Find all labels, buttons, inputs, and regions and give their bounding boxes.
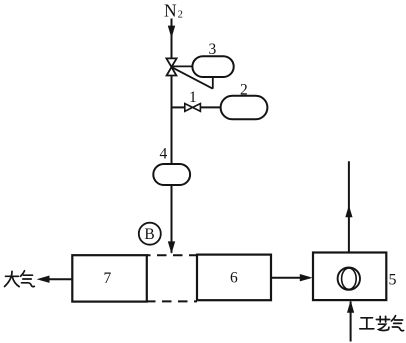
wire branch to valve 1 bbox=[171, 106, 185, 108]
flow arrow up on discharge riser bbox=[345, 205, 352, 217]
wire valve 1 to capsule 2 bbox=[200, 106, 220, 108]
flow arrow down on N2 line bbox=[168, 26, 175, 39]
wire N2 line middle segment bbox=[171, 76, 173, 165]
node B circle bbox=[139, 223, 161, 245]
label 大气 (atmosphere) bbox=[5, 271, 35, 287]
char 气 bbox=[21, 271, 25, 276]
blower box 5 bbox=[313, 253, 386, 301]
svg-text:N: N bbox=[164, 0, 177, 20]
label 工艺气 (process gas) bbox=[360, 316, 404, 331]
wire N2 feed line upper segment bbox=[171, 19, 173, 59]
svg-text:7: 7 bbox=[104, 270, 112, 287]
dashed duct top between 7 and 6 bbox=[147, 254, 197, 256]
flow arrow down into duct bbox=[168, 241, 175, 253]
flow arrow up into blower bottom bbox=[347, 300, 354, 313]
char 气 bbox=[391, 316, 395, 321]
char 大 bbox=[6, 275, 19, 277]
char 工 bbox=[361, 317, 373, 319]
instrument capsule 3 bbox=[192, 56, 233, 77]
wire outlet to atmosphere bbox=[48, 278, 72, 280]
flow arrow to atmosphere (left) bbox=[37, 276, 50, 283]
vessel box 7 bbox=[72, 255, 147, 301]
svg-text:2: 2 bbox=[178, 9, 183, 20]
wire N2 line lower segment bbox=[171, 185, 173, 253]
svg-text:2: 2 bbox=[240, 81, 248, 98]
flow arrow into blower 5 bbox=[300, 274, 313, 281]
svg-text:4: 4 bbox=[160, 146, 168, 163]
instrument capsule 4 (in-line) bbox=[153, 164, 190, 185]
label N2 (nitrogen inlet) bbox=[164, 0, 183, 20]
wire process gas inlet riser bbox=[350, 302, 352, 342]
svg-text:5: 5 bbox=[389, 271, 397, 288]
control valve (two triangles, vertical) bbox=[166, 58, 176, 75]
wire blower discharge riser bbox=[348, 161, 350, 252]
instrument capsule 2 bbox=[221, 96, 268, 120]
signal line riser under instrument 3 bbox=[212, 77, 214, 89]
vessel box 6 bbox=[197, 255, 271, 301]
svg-text:3: 3 bbox=[209, 41, 217, 58]
dashed duct bottom between 7 and 6 bbox=[147, 300, 197, 302]
signal line valve to instrument 3 (horizontal) bbox=[172, 65, 193, 67]
signal line valve to instrument 3 (diagonal) bbox=[172, 67, 213, 89]
blower impeller inner ellipse bbox=[342, 268, 357, 289]
char 艺 bbox=[376, 319, 389, 321]
svg-text:6: 6 bbox=[230, 269, 238, 286]
svg-text:B: B bbox=[144, 226, 154, 243]
blower impeller circle bbox=[338, 267, 360, 289]
valve 1 (bowtie) bbox=[185, 104, 201, 112]
svg-text:1: 1 bbox=[189, 89, 197, 106]
wire duct 6 to blower 5 bbox=[271, 277, 301, 279]
